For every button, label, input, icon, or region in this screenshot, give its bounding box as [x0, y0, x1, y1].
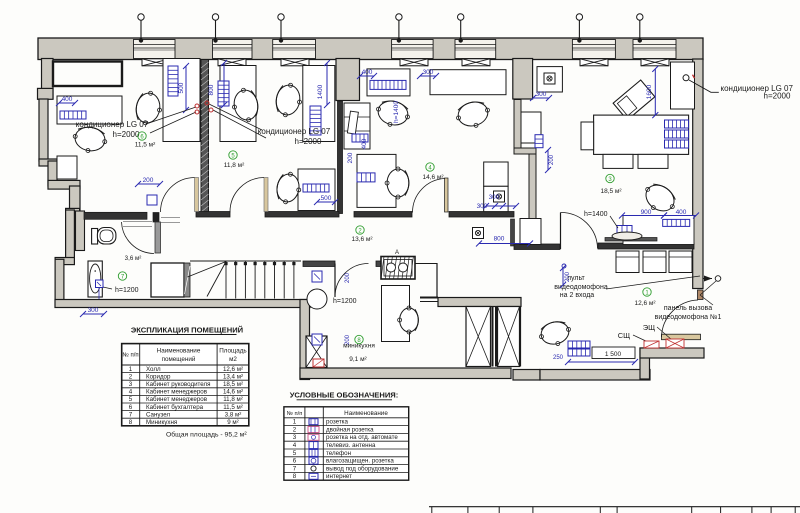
- svg-text:h=1200: h=1200: [115, 287, 139, 294]
- svg-text:5: 5: [293, 450, 297, 457]
- svg-text:1600: 1600: [646, 84, 653, 99]
- svg-text:300: 300: [423, 69, 434, 76]
- svg-text:11,8 м²: 11,8 м²: [223, 396, 243, 403]
- svg-text:6: 6: [129, 404, 133, 411]
- svg-text:14,6 м²: 14,6 м²: [422, 174, 444, 181]
- svg-text:13,6 м²: 13,6 м²: [351, 236, 373, 243]
- svg-text:УСЛОВНЫЕ ОБОЗНАЧЕНИЯ:: УСЛОВНЫЕ ОБОЗНАЧЕНИЯ:: [290, 391, 399, 400]
- svg-text:h=2000: h=2000: [764, 91, 791, 100]
- svg-text:интернет: интернет: [326, 473, 352, 480]
- svg-text:8: 8: [129, 419, 133, 426]
- svg-text:250: 250: [553, 355, 564, 361]
- svg-text:3,8 м²: 3,8 м²: [225, 411, 242, 418]
- svg-text:300: 300: [489, 194, 500, 201]
- svg-text:13,4 м²: 13,4 м²: [223, 373, 243, 380]
- svg-text:8: 8: [293, 473, 297, 480]
- svg-text:видеодомофона №1: видеодомофона №1: [655, 314, 722, 321]
- svg-text:400: 400: [362, 69, 373, 76]
- svg-text:h=1400: h=1400: [584, 211, 608, 218]
- svg-text:1: 1: [129, 366, 133, 373]
- svg-text:розетка: розетка: [326, 419, 348, 426]
- svg-text:3: 3: [293, 434, 297, 441]
- svg-text:на 2 входа: на 2 входа: [560, 292, 595, 299]
- svg-text:Наименование: Наименование: [157, 348, 201, 355]
- svg-text:9 м²: 9 м²: [227, 419, 238, 426]
- svg-text:400: 400: [676, 209, 687, 216]
- svg-text:2: 2: [129, 373, 133, 380]
- svg-text:влагозащищен. розетка: влагозащищен. розетка: [326, 458, 394, 465]
- svg-text:Наименование: Наименование: [344, 410, 388, 417]
- svg-text:3,6 м²: 3,6 м²: [125, 255, 142, 262]
- svg-text:ЭКСПЛИКАЦИЯ ПОМЕЩЕНИЙ: ЭКСПЛИКАЦИЯ ПОМЕЩЕНИЙ: [131, 326, 243, 335]
- svg-text:Миникухня: Миникухня: [146, 419, 177, 426]
- svg-text:м2: м2: [229, 356, 237, 363]
- svg-text:СЩ: СЩ: [618, 331, 630, 340]
- svg-text:400: 400: [62, 96, 73, 103]
- svg-text:300: 300: [88, 307, 99, 314]
- svg-text:вывод под оборудование: вывод под оборудование: [326, 465, 399, 472]
- svg-text:Санузел: Санузел: [146, 411, 170, 418]
- svg-text:200: 200: [345, 272, 351, 283]
- svg-text:800: 800: [208, 84, 215, 95]
- svg-text:Кабинет бухгалтера: Кабинет бухгалтера: [146, 404, 204, 411]
- svg-text:2: 2: [293, 426, 297, 433]
- svg-text:11,8 м²: 11,8 м²: [224, 162, 245, 169]
- svg-text:5: 5: [129, 396, 133, 403]
- svg-text:7: 7: [293, 465, 297, 472]
- svg-text:800: 800: [494, 236, 505, 243]
- svg-text:12,6 м²: 12,6 м²: [634, 300, 656, 307]
- svg-text:18,5 м²: 18,5 м²: [223, 381, 243, 388]
- svg-text:4: 4: [129, 389, 133, 396]
- svg-text:кондиционер LG 07: кондиционер LG 07: [258, 127, 331, 136]
- svg-text:ЭЩ: ЭЩ: [643, 323, 655, 332]
- svg-text:1 500: 1 500: [605, 351, 622, 358]
- svg-text:Площадь: Площадь: [219, 348, 247, 355]
- svg-text:h=1400: h=1400: [393, 101, 400, 123]
- svg-text:11,5 м²: 11,5 м²: [223, 404, 243, 411]
- svg-text:11,5 м²: 11,5 м²: [135, 142, 156, 149]
- svg-text:h=1200: h=1200: [333, 298, 357, 305]
- svg-text:12,6 м²: 12,6 м²: [223, 366, 243, 373]
- svg-text:500: 500: [321, 195, 332, 202]
- svg-text:Кабинет менеджеров: Кабинет менеджеров: [146, 389, 208, 396]
- svg-text:№ п/п: № п/п: [287, 411, 303, 417]
- svg-text:помещений: помещений: [162, 355, 196, 363]
- svg-text:200: 200: [565, 271, 571, 282]
- svg-text:400: 400: [361, 138, 368, 149]
- svg-text:200: 200: [143, 177, 154, 184]
- svg-text:h=2000: h=2000: [295, 137, 322, 146]
- svg-text:1400: 1400: [317, 84, 324, 99]
- svg-text:1: 1: [293, 419, 297, 426]
- svg-text:двойная розетка: двойная розетка: [326, 426, 374, 433]
- svg-text:300: 300: [536, 91, 547, 98]
- svg-text:Кабинет менеджеров: Кабинет менеджеров: [146, 396, 208, 403]
- svg-text:телевиз. антенна: телевиз. антенна: [326, 442, 376, 449]
- svg-text:кондиционер LG 07: кондиционер LG 07: [76, 120, 149, 129]
- svg-text:Кабинет руководителя: Кабинет руководителя: [146, 381, 210, 388]
- svg-text:500: 500: [178, 82, 185, 93]
- svg-text:панель вызова: панель вызова: [664, 305, 712, 312]
- svg-text:200: 200: [549, 154, 555, 165]
- svg-text:А: А: [395, 250, 399, 256]
- svg-text:200: 200: [347, 152, 354, 163]
- svg-text:9,1 м²: 9,1 м²: [349, 356, 367, 363]
- svg-text:14,6 м²: 14,6 м²: [223, 389, 243, 396]
- svg-text:Коридор: Коридор: [146, 373, 171, 380]
- svg-text:h=2000: h=2000: [113, 130, 140, 139]
- svg-text:Общая площадь - 95,2 м²: Общая площадь - 95,2 м²: [166, 431, 247, 439]
- svg-text:6: 6: [293, 458, 297, 465]
- svg-text:телефон: телефон: [326, 450, 351, 457]
- svg-text:розетка на отд. автомате: розетка на отд. автомате: [326, 434, 398, 441]
- svg-text:Холл: Холл: [146, 366, 161, 373]
- svg-text:3: 3: [129, 381, 133, 388]
- svg-text:4: 4: [293, 442, 297, 449]
- svg-text:7: 7: [129, 411, 133, 418]
- svg-text:№ п/п: № п/п: [122, 352, 138, 359]
- svg-text:900: 900: [641, 209, 652, 216]
- svg-text:18,5 м²: 18,5 м²: [600, 188, 622, 195]
